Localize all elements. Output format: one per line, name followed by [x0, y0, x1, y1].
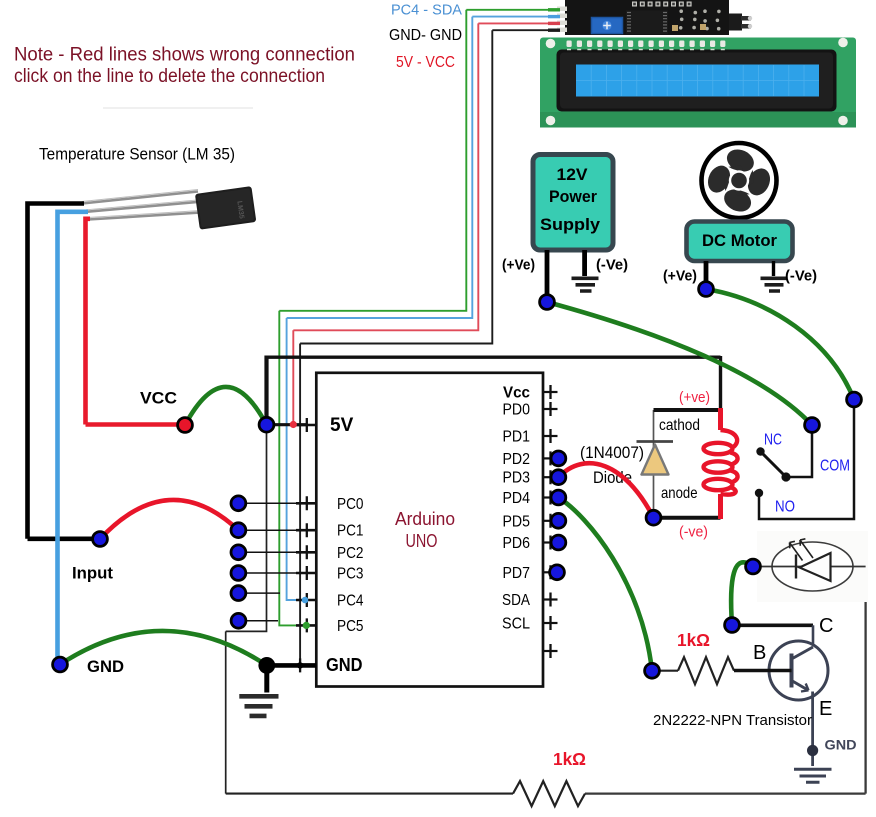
- svg-text:GND: GND: [87, 657, 124, 676]
- svg-text:PD7: PD7: [503, 565, 531, 582]
- svg-text:Arduino: Arduino: [395, 509, 455, 529]
- svg-text:1kΩ: 1kΩ: [677, 630, 710, 650]
- svg-text:1kΩ: 1kΩ: [553, 749, 586, 769]
- svg-text:click on the line to delete th: click on the line to delete the connecti…: [14, 65, 325, 87]
- svg-text:DC Motor: DC Motor: [702, 231, 777, 250]
- svg-text:5V - VCC: 5V - VCC: [396, 54, 455, 71]
- svg-text:PC4 - SDA: PC4 - SDA: [391, 3, 462, 19]
- svg-text:PC1: PC1: [337, 523, 364, 540]
- svg-text:PD5: PD5: [503, 513, 531, 530]
- svg-text:Note - Red lines shows wrong c: Note - Red lines shows wrong connection: [14, 44, 355, 66]
- svg-text:(1N4007): (1N4007): [580, 443, 644, 462]
- svg-text:Power: Power: [549, 188, 598, 206]
- svg-text:NC: NC: [764, 432, 782, 449]
- svg-text:(+ve): (+ve): [679, 390, 710, 406]
- svg-text:PD4: PD4: [503, 490, 531, 507]
- svg-text:PC4: PC4: [337, 593, 364, 610]
- svg-text:NO: NO: [775, 499, 795, 516]
- svg-text:12V: 12V: [557, 166, 588, 184]
- svg-text:Supply: Supply: [540, 216, 601, 234]
- svg-text:PC3: PC3: [337, 566, 364, 583]
- svg-text:GND: GND: [825, 738, 857, 753]
- svg-text:(+Ve): (+Ve): [663, 268, 697, 285]
- svg-text:(-Ve): (-Ve): [785, 268, 817, 285]
- svg-text:GND- GND: GND- GND: [389, 27, 462, 44]
- svg-text:UNO: UNO: [406, 531, 438, 551]
- svg-text:C: C: [819, 615, 833, 637]
- svg-text:Temperature Sensor (LM 35): Temperature Sensor (LM 35): [39, 145, 235, 164]
- svg-text:E: E: [819, 698, 832, 720]
- svg-text:PD1: PD1: [503, 429, 531, 446]
- svg-text:GND: GND: [326, 655, 363, 675]
- svg-text:PD6: PD6: [503, 535, 531, 552]
- svg-text:PC2: PC2: [337, 545, 364, 562]
- svg-text:PD3: PD3: [503, 470, 531, 487]
- svg-text:SDA: SDA: [502, 592, 531, 609]
- svg-text:Input: Input: [72, 564, 113, 583]
- svg-text:5V: 5V: [330, 415, 354, 436]
- svg-text:B: B: [753, 642, 766, 664]
- svg-text:Vcc: Vcc: [503, 385, 530, 402]
- svg-text:VCC: VCC: [140, 389, 177, 408]
- svg-text:PD0: PD0: [503, 402, 531, 419]
- svg-text:anode: anode: [661, 485, 698, 502]
- svg-text:(+Ve): (+Ve): [502, 257, 535, 274]
- svg-text:2N2222-NPN Transistor: 2N2222-NPN Transistor: [653, 712, 812, 729]
- svg-text:PC5: PC5: [337, 618, 364, 635]
- svg-text:PD2: PD2: [503, 451, 531, 468]
- svg-text:(-Ve): (-Ve): [596, 257, 628, 274]
- svg-text:SCL: SCL: [502, 616, 530, 633]
- svg-text:PC0: PC0: [337, 496, 364, 513]
- svg-text:COM: COM: [820, 458, 850, 475]
- svg-text:(-ve): (-ve): [679, 525, 708, 541]
- svg-text:cathod: cathod: [659, 417, 700, 434]
